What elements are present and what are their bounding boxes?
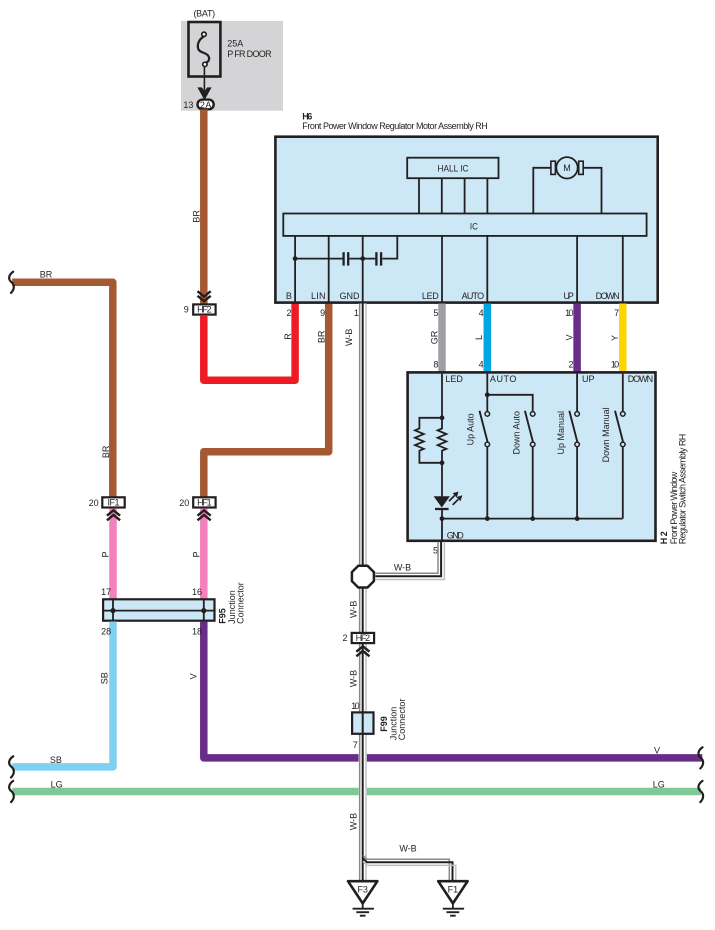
svg-text:P: P xyxy=(192,551,202,557)
svg-text:5: 5 xyxy=(433,308,438,318)
svg-text:Y: Y xyxy=(610,335,620,341)
pin lead DOWN xyxy=(622,236,624,303)
capacitor C2 xyxy=(349,236,397,266)
pin number 4 (switch AUTO) xyxy=(479,360,484,370)
svg-text:7: 7 xyxy=(353,740,358,750)
pin lead LIN xyxy=(328,236,330,303)
ground F3 xyxy=(348,881,377,916)
svg-text:DOWN: DOWN xyxy=(628,374,653,384)
svg-text:F3: F3 xyxy=(357,884,368,894)
svg-text:4: 4 xyxy=(479,360,484,370)
connector IF1 terminal arrows xyxy=(107,510,120,520)
svg-text:(BAT): (BAT) xyxy=(193,9,215,19)
svg-text:1: 1 xyxy=(354,308,359,318)
pin number 28 (F95) xyxy=(101,626,111,636)
up feed xyxy=(576,374,578,412)
svg-text:Front Power Window Regulator M: Front Power Window Regulator Motor Assem… xyxy=(302,121,488,131)
svg-text:Down Auto: Down Auto xyxy=(512,411,522,455)
svg-text:W-B: W-B xyxy=(348,601,358,618)
svg-text:W-B: W-B xyxy=(348,670,358,687)
svg-text:10: 10 xyxy=(351,701,359,711)
svg-text:20: 20 xyxy=(89,498,99,508)
wire W-B switch GND to splice xyxy=(375,542,444,580)
led D1 xyxy=(434,463,463,519)
wire LG across page xyxy=(9,779,703,802)
pin number 10 (switch DOWN) xyxy=(611,360,619,370)
svg-text:P: P xyxy=(101,551,111,557)
wire W-B motor GND down to splice xyxy=(344,304,366,565)
pin number 2 (B) xyxy=(286,308,291,318)
svg-text:BR: BR xyxy=(40,269,53,279)
auto feed branch xyxy=(485,374,533,412)
svg-text:4: 4 xyxy=(479,308,484,318)
pin label AUTO xyxy=(462,291,485,301)
wire V from F95 pin 18 to off-page right xyxy=(188,622,703,769)
pin lead B xyxy=(294,236,296,303)
switch Up Auto xyxy=(465,411,489,519)
resistor R1 (left) xyxy=(415,418,442,463)
svg-text:Down Manual: Down Manual xyxy=(601,407,611,462)
motor assembly H6 box xyxy=(275,112,657,303)
motor M xyxy=(533,157,601,213)
junction connector F99 xyxy=(351,699,407,750)
svg-text:LED: LED xyxy=(445,374,463,384)
wire Y motor DOWN to switch xyxy=(610,304,623,373)
label (BAT) xyxy=(193,9,215,19)
junction connector F95 xyxy=(101,582,246,624)
wire P from IF1 to F95 pin 17 xyxy=(101,509,113,600)
pin label UP xyxy=(563,291,574,301)
switch label LED xyxy=(445,374,463,384)
fuse 25A P FR DOOR xyxy=(189,22,273,77)
wire fuse output xyxy=(197,67,211,101)
svg-text:LED: LED xyxy=(422,291,439,301)
node 2A fuse output terminal xyxy=(183,100,213,110)
svg-text:W-B: W-B xyxy=(394,563,411,573)
pin lead GND xyxy=(362,236,364,303)
wire SB from F95 pin 28 to off-page left xyxy=(9,622,113,778)
svg-text:M: M xyxy=(563,163,571,173)
svg-text:Up Auto: Up Auto xyxy=(465,413,475,445)
svg-text:HF2: HF2 xyxy=(197,305,212,315)
switch Down Manual xyxy=(601,407,625,518)
svg-text:F95: F95 xyxy=(217,608,227,624)
svg-text:20: 20 xyxy=(179,498,189,508)
pin label GND xyxy=(340,291,361,301)
svg-text:GR: GR xyxy=(429,330,439,344)
svg-text:16: 16 xyxy=(192,587,202,597)
svg-text:UP: UP xyxy=(582,374,595,384)
svg-text:Connector: Connector xyxy=(397,699,407,741)
svg-text:V: V xyxy=(654,746,660,756)
splice node octagon xyxy=(352,566,374,588)
svg-text:H2: H2 xyxy=(659,531,669,544)
svg-text:8: 8 xyxy=(433,360,438,370)
switch label DOWN xyxy=(628,374,653,384)
wire L motor AUTO to switch xyxy=(474,304,487,373)
pin lead UP xyxy=(576,236,578,303)
svg-text:BR: BR xyxy=(101,445,111,458)
pin label B xyxy=(286,291,292,301)
svg-text:10: 10 xyxy=(565,308,573,318)
pin lead LED xyxy=(441,236,443,303)
pin number 8 (switch LED) xyxy=(433,360,438,370)
svg-text:IC: IC xyxy=(470,222,478,232)
svg-text:L: L xyxy=(474,335,484,340)
svg-text:IF1: IF1 xyxy=(108,498,120,508)
switch label AUTO xyxy=(490,374,517,384)
svg-text:2: 2 xyxy=(568,360,573,370)
svg-text:GND: GND xyxy=(340,291,361,301)
svg-text:2: 2 xyxy=(286,308,291,318)
svg-text:W-B: W-B xyxy=(399,844,416,854)
wire W-B splice down to grounds (crosses V and LG) xyxy=(348,589,366,882)
pin number 18 (F95) xyxy=(192,626,202,636)
svg-text:13: 13 xyxy=(183,100,193,110)
pin label LIN xyxy=(311,291,326,301)
connector HF2 top (pin 9) xyxy=(184,291,216,314)
svg-text:7: 7 xyxy=(614,308,619,318)
wire BR from motor pin LIN to HF1 xyxy=(204,304,329,497)
svg-text:25A: 25A xyxy=(227,38,243,48)
pin number 5 (LED) xyxy=(433,308,438,318)
svg-text:AUTO: AUTO xyxy=(490,374,517,384)
svg-text:HF1: HF1 xyxy=(197,498,212,508)
wire V motor UP to switch xyxy=(564,304,577,373)
pin number 10 (UP) xyxy=(565,308,573,318)
svg-text:LG: LG xyxy=(51,779,63,789)
switch Down Auto xyxy=(512,411,536,519)
down feed xyxy=(622,374,624,412)
svg-text:Regulator Switch Assembly RH: Regulator Switch Assembly RH xyxy=(678,434,688,545)
svg-text:18: 18 xyxy=(192,626,202,636)
svg-text:F1: F1 xyxy=(448,884,459,894)
svg-text:P FR DOOR: P FR DOOR xyxy=(227,49,272,59)
svg-text:SB: SB xyxy=(50,755,62,765)
gnd rail xyxy=(440,516,623,540)
pin number 1 (GND) xyxy=(354,308,359,318)
resistor R2 (right, on LED line) xyxy=(438,418,447,465)
switch assembly H2 box xyxy=(408,372,688,544)
svg-text:9: 9 xyxy=(320,308,325,318)
svg-text:W-B: W-B xyxy=(344,329,354,346)
svg-text:HF2: HF2 xyxy=(356,633,371,643)
svg-text:HALL IC: HALL IC xyxy=(438,163,469,173)
pin lead AUTO xyxy=(486,236,488,303)
ic bar U-ic xyxy=(283,214,646,236)
pin number 5 (switch GND) xyxy=(433,546,438,556)
pin number 9 (LIN) xyxy=(320,308,325,318)
svg-text:GND: GND xyxy=(447,531,465,541)
wire R from HF2 to motor pin B xyxy=(204,304,295,381)
hall ic U-hall xyxy=(407,158,498,214)
svg-text:Up Manual: Up Manual xyxy=(556,411,566,455)
pin number 4 (AUTO) xyxy=(479,308,484,318)
connector HF1 terminal arrows xyxy=(198,510,211,520)
svg-text:B: B xyxy=(286,291,292,301)
svg-text:W-B: W-B xyxy=(348,813,358,830)
fuse block gray panel xyxy=(181,21,283,111)
pin number 2 (switch UP) xyxy=(568,360,573,370)
switch label UP xyxy=(582,374,595,384)
svg-text:2: 2 xyxy=(342,633,347,643)
wire W-B branch to ground F1 xyxy=(363,844,456,882)
svg-text:F99: F99 xyxy=(379,716,389,732)
svg-text:V: V xyxy=(188,673,198,679)
svg-text:LIN: LIN xyxy=(311,291,326,301)
svg-text:5: 5 xyxy=(433,546,438,556)
svg-text:2A: 2A xyxy=(200,100,212,110)
pin label DOWN xyxy=(596,291,620,301)
svg-text:9: 9 xyxy=(184,304,189,314)
connector HF2 lower (pin 2) xyxy=(342,633,374,656)
svg-text:10: 10 xyxy=(611,360,619,370)
svg-text:Connector: Connector xyxy=(236,582,246,624)
connector HF1 (pin 20) xyxy=(179,497,215,508)
wire P from HF1 to F95 pin 16 xyxy=(192,509,204,600)
ground F1 xyxy=(438,881,467,916)
wire GR motor LED to switch xyxy=(429,304,442,373)
svg-text:28: 28 xyxy=(101,626,111,636)
svg-text:17: 17 xyxy=(101,587,111,597)
wire BR from fuse to HF2 xyxy=(191,110,204,305)
led feed wire xyxy=(440,374,445,420)
svg-text:LG: LG xyxy=(653,780,665,790)
svg-text:DOWN: DOWN xyxy=(596,291,620,301)
svg-text:V: V xyxy=(564,334,574,340)
svg-text:R: R xyxy=(283,333,293,340)
svg-text:AUTO: AUTO xyxy=(462,291,485,301)
svg-text:UP: UP xyxy=(563,291,574,301)
svg-text:SB: SB xyxy=(99,672,109,684)
svg-text:BR: BR xyxy=(317,330,327,343)
connector IF1 (pin 20) xyxy=(89,497,125,508)
svg-text:BR: BR xyxy=(191,210,201,223)
pin number 7 (DOWN) xyxy=(614,308,619,318)
capacitor C1 xyxy=(293,252,349,265)
wire BR from off-page left to IF1 xyxy=(9,269,113,496)
pin label LED xyxy=(422,291,439,301)
switch Up Manual xyxy=(556,411,580,519)
